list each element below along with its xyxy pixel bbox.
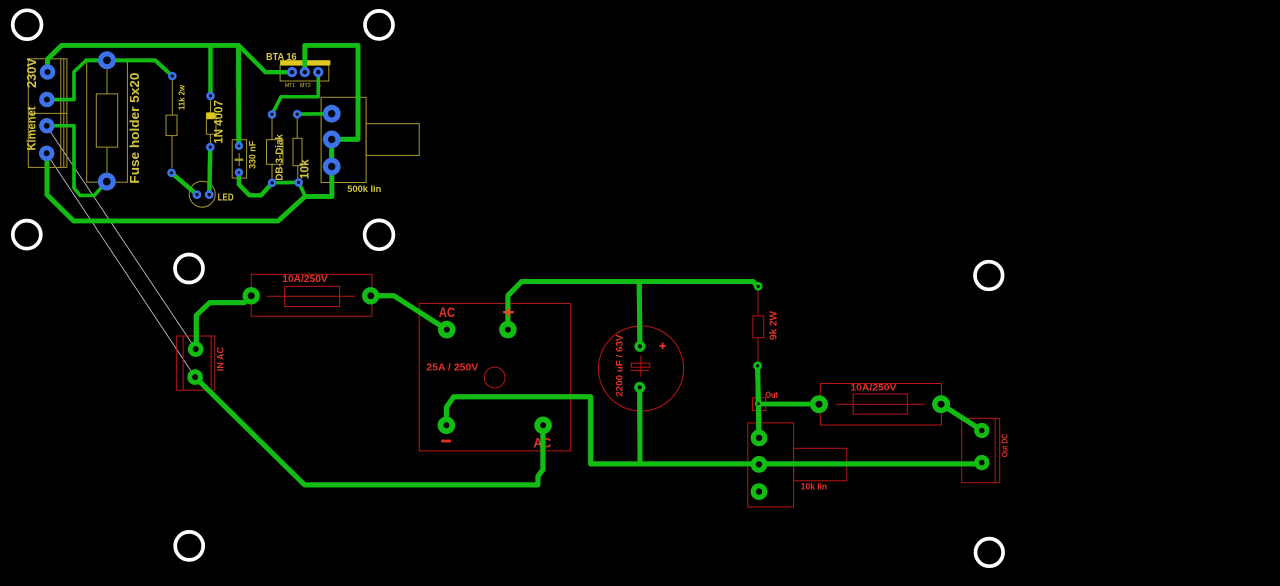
svg-text:500k lin: 500k lin xyxy=(347,184,381,195)
diac DB3 body xyxy=(267,140,283,165)
svg-text:1N 4007: 1N 4007 xyxy=(211,100,225,144)
fuse F1 center line xyxy=(267,295,355,297)
pad Out-DC 2 xyxy=(974,455,989,470)
Out test pad box xyxy=(752,398,765,411)
svg-text:230V: 230V xyxy=(24,58,39,88)
capacitor 2200uF symbol plate rect xyxy=(631,363,650,367)
wire pot pad2 to pad3 xyxy=(329,139,334,166)
wire main loop: 230V pad1 up, top rail, down to C1 330nF xyxy=(48,45,239,145)
pad 1N4007 top xyxy=(206,92,215,101)
svg-text:MT2: MT2 xyxy=(300,83,311,89)
wire top rail to 1N4007 anode xyxy=(208,45,212,95)
potentiometer 10k shaft xyxy=(794,448,847,481)
wire connector pad3 to fuse bottom pad xyxy=(47,126,107,196)
resistor 11k 2w lead top xyxy=(171,80,173,115)
fuse F2 center line xyxy=(836,403,924,405)
fuse holder center lead bottom xyxy=(106,147,108,172)
wire 10k bottom to junction xyxy=(299,182,306,196)
wire top rail to cap plus xyxy=(637,282,643,347)
label minus bar xyxy=(441,440,451,443)
pad cap plus xyxy=(634,341,645,352)
wire triac gate G to DB3 top xyxy=(272,72,318,114)
mounting hole H7 xyxy=(175,532,203,560)
wire triac MT2 loop to pot wiper xyxy=(305,45,358,139)
mounting hole H6 xyxy=(975,262,1003,290)
wire 9k bottom to Out pad to pot pad1 xyxy=(758,366,759,438)
potentiometer 500k shaft xyxy=(366,124,419,156)
wire connector pad3 to fuse bottom pad xyxy=(47,126,107,196)
fuse holder outline xyxy=(87,60,128,183)
pad 9k top xyxy=(754,282,763,291)
wire 10k top to pot pad1 xyxy=(297,112,331,116)
wire Out pad to fuse F2 left xyxy=(758,402,819,407)
wire fuse F2 right to Out-DC pin1 xyxy=(941,404,982,430)
resistor 11k 2w lead bottom xyxy=(171,136,173,168)
capacitor 330nF plus bar xyxy=(235,159,244,161)
wire bottom rail: pot pad3 down, left to connector pad4 xyxy=(47,153,332,221)
connector X1 inner line a xyxy=(60,59,62,168)
pad F1 left xyxy=(243,287,260,304)
mounting hole H3 xyxy=(13,221,41,249)
svg-text:10A/250V: 10A/250V xyxy=(850,382,897,393)
pad bridge AC bottom xyxy=(534,417,552,435)
connector X1 divider xyxy=(28,112,67,114)
wire bridge minus to DC rail to Out-DC pin2 xyxy=(446,397,981,464)
label plus bridge xyxy=(503,308,514,317)
wire top rail to 1N4007 anode xyxy=(208,45,212,95)
wire bridge plus to top rail to 9k top xyxy=(508,282,758,330)
resistor 10k lead top xyxy=(296,118,298,138)
wire 10k bottom to junction xyxy=(299,182,306,196)
wire triac MT2 loop to pot wiper xyxy=(305,45,358,139)
pad pot 500k 3 xyxy=(323,158,341,176)
pad pot10k 2 xyxy=(751,456,768,473)
svg-text:BTA 16: BTA 16 xyxy=(266,51,297,63)
wire connector pad2 to fuse top xyxy=(47,60,86,99)
wire main loop: 230V pad1 up, top rail, down to C1 330nF xyxy=(48,45,239,145)
wire 10k top to pot pad1 xyxy=(297,112,331,116)
wire fuse F2 right to Out-DC pin1 xyxy=(941,404,982,430)
pad F2 right xyxy=(932,395,950,413)
pad 330nF top xyxy=(235,142,243,150)
svg-text:Kimenet: Kimenet xyxy=(24,106,38,150)
svg-text:10k: 10k xyxy=(298,159,312,179)
diode 1N4007 cathode band xyxy=(206,112,214,119)
pad LED right xyxy=(205,190,214,199)
svg-text:330 nF: 330 nF xyxy=(248,141,259,169)
svg-text:IN AC: IN AC xyxy=(216,347,226,371)
mounting hole H2 xyxy=(365,11,393,39)
wire 9k bottom to Out pad to pot pad1 xyxy=(758,366,759,438)
resistor 9k lead bottom xyxy=(757,338,759,362)
svg-text:Fuse holder 5x20: Fuse holder 5x20 xyxy=(127,73,142,184)
wire branch to triac MT1 xyxy=(240,46,293,72)
ratsnest airwire pad3 to IN-AC pin1 xyxy=(47,126,196,349)
connector IN-AC outline xyxy=(177,336,215,390)
potentiometer 500k outline xyxy=(321,97,366,182)
wire bridge minus to DC rail to Out-DC pin2 xyxy=(446,397,981,464)
pad pot 500k 1 xyxy=(323,105,341,123)
pad DB3 bottom xyxy=(268,179,277,188)
potentiometer 10k outline xyxy=(748,423,794,507)
pad pot10k 1 xyxy=(751,430,768,447)
connector X1 inner line b xyxy=(63,59,65,168)
connector Out-DC inner line xyxy=(994,418,996,482)
svg-text:DB-3-Diak: DB-3-Diak xyxy=(275,134,286,181)
pad 10k bottom xyxy=(294,178,303,187)
wire fuse top pad to 11k top pad xyxy=(86,60,172,76)
wire 11k bottom to LED left pad xyxy=(172,173,197,195)
svg-text:10A/250V: 10A/250V xyxy=(282,274,328,285)
diac DB3 lead top xyxy=(271,118,273,140)
pad Out xyxy=(755,400,762,407)
pad fuse top xyxy=(98,51,116,69)
wire connector pad2 to fuse top xyxy=(47,60,86,99)
capacitor 2200uF symbol plate line xyxy=(630,369,649,371)
wire Out pad to fuse F2 left xyxy=(758,402,819,407)
wire fuse top pad to 11k top pad xyxy=(86,60,172,76)
mounting hole H5 xyxy=(365,220,394,249)
pad BTA16 G xyxy=(313,67,323,77)
pad F2 left xyxy=(810,395,828,413)
label plus cap xyxy=(659,343,665,349)
capacitor 2200uF symbol lead xyxy=(640,356,642,377)
pad fuse bottom xyxy=(98,173,116,191)
pad F1 right xyxy=(362,287,379,304)
svg-text:MT1: MT1 xyxy=(285,83,295,89)
mounting hole H8 xyxy=(976,539,1004,567)
wire bridge plus to top rail to 9k top xyxy=(508,282,758,330)
wire C1 330nF bottom to DB3 bottom xyxy=(239,173,272,196)
svg-text:10k lin: 10k lin xyxy=(801,481,827,491)
pad bridge minus xyxy=(438,417,456,435)
resistor 10k body xyxy=(293,138,302,165)
wire 1N4007 cathode to LED right pad xyxy=(209,147,210,195)
fuse F2 body xyxy=(853,394,907,414)
pad DB3 top xyxy=(268,110,277,119)
pad pot10k 3 xyxy=(751,483,768,500)
wire cap minus to DC rail xyxy=(637,387,642,464)
diode 1N4007 body xyxy=(206,114,216,135)
svg-text:Out DC: Out DC xyxy=(1000,434,1009,458)
pad 1N4007 bottom xyxy=(206,143,215,152)
wire DB3 bottom to 10k bottom xyxy=(272,181,299,185)
bridge rectifier circle xyxy=(484,367,505,388)
LED circle xyxy=(189,181,215,207)
pad bridge AC top xyxy=(438,321,456,339)
wire triac gate G to DB3 top xyxy=(272,72,318,114)
svg-text:2200 uF / 63V: 2200 uF / 63V xyxy=(614,334,625,397)
wire IN-AC pin2 bottom rail to bridge AC bottom xyxy=(195,377,543,485)
pad cap minus xyxy=(634,382,645,393)
wire C1 330nF bottom to DB3 bottom xyxy=(239,173,272,196)
connector X1 outline xyxy=(28,59,67,168)
svg-text:Out: Out xyxy=(765,390,778,400)
diode 1N4007 lead top xyxy=(210,100,212,114)
svg-text:11k 2w: 11k 2w xyxy=(177,85,187,110)
fuse holder center lead top xyxy=(106,70,108,94)
wire bottom rail: pot pad3 down, left to connector pad4 xyxy=(47,153,332,221)
wire fuse F1 right to bridge AC top xyxy=(371,296,447,330)
capacitor 330nF outline xyxy=(232,140,246,178)
fuse F1 body xyxy=(285,286,340,306)
capacitor 2200uF circle xyxy=(598,326,683,411)
wire branch to triac MT1 xyxy=(240,46,293,72)
fuse F2 outline xyxy=(820,384,941,426)
resistor 10k lead bottom xyxy=(297,166,299,178)
pad X1-4 Kimenet xyxy=(39,146,54,161)
pad X1-1 230V xyxy=(40,64,55,79)
connector IN-AC inner line b xyxy=(210,336,212,390)
fuse holder inner body xyxy=(96,94,117,147)
wire IN-AC pin2 bottom rail to bridge AC bottom xyxy=(195,377,543,485)
pad 11k top xyxy=(168,72,177,81)
wire fuse F1 left to IN-AC pin1 xyxy=(196,296,251,349)
diode 1N4007 lead bottom xyxy=(209,134,211,143)
fuse F1 outline xyxy=(251,274,372,316)
wire top rail to cap plus xyxy=(637,282,643,347)
pad BTA16 MT1 xyxy=(287,67,297,77)
pad BTA16 MT2 xyxy=(300,67,310,77)
wire 1N4007 cathode to LED right pad xyxy=(209,147,210,195)
pad IN-AC 2 xyxy=(187,369,203,385)
triac BTA16 tab bar xyxy=(280,60,330,65)
pad 10k top xyxy=(293,110,302,119)
svg-text:LED: LED xyxy=(218,193,234,204)
pad LED left xyxy=(193,190,202,199)
diac DB3 lead bottom xyxy=(271,164,273,179)
wire cap minus to DC rail xyxy=(637,387,642,464)
resistor 9k lead top xyxy=(757,291,759,316)
wire 11k bottom to LED left pad xyxy=(172,173,197,195)
ratsnest airwire pad4 to IN-AC pin2 xyxy=(47,154,196,378)
svg-text:9k 2W: 9k 2W xyxy=(768,310,779,340)
mounting hole H1 xyxy=(13,10,42,39)
wire DB3 bottom to 10k bottom xyxy=(272,181,299,185)
pad 330nF bottom xyxy=(235,168,243,176)
resistor 9k body xyxy=(753,316,764,338)
wire pot pad2 to pad3 xyxy=(329,139,334,166)
mounting hole H4 xyxy=(175,255,203,283)
pad Out-DC 1 xyxy=(974,423,989,438)
connector IN-AC inner line a xyxy=(182,336,184,390)
pad X1-3 Kimenet xyxy=(39,118,54,133)
pad bridge plus xyxy=(499,321,517,339)
pad X1-2 230V xyxy=(39,92,54,107)
pad IN-AC 1 xyxy=(188,341,204,357)
triac BTA16 outline xyxy=(280,65,329,81)
bridge rectifier outline xyxy=(419,303,571,451)
wire fuse F1 left to IN-AC pin1 xyxy=(196,296,251,349)
resistor 11k 2w body xyxy=(166,115,177,136)
wire fuse F1 right to bridge AC top xyxy=(371,296,447,330)
svg-text:25A / 250V: 25A / 250V xyxy=(426,363,478,374)
svg-text:AC: AC xyxy=(439,304,456,320)
pad pot 500k 2 xyxy=(323,131,341,149)
connector Out-DC outline xyxy=(962,418,1000,482)
pad 11k bottom xyxy=(167,169,176,178)
pad 9k bottom xyxy=(753,361,762,370)
capacitor 330nF plus vertical xyxy=(238,153,240,166)
